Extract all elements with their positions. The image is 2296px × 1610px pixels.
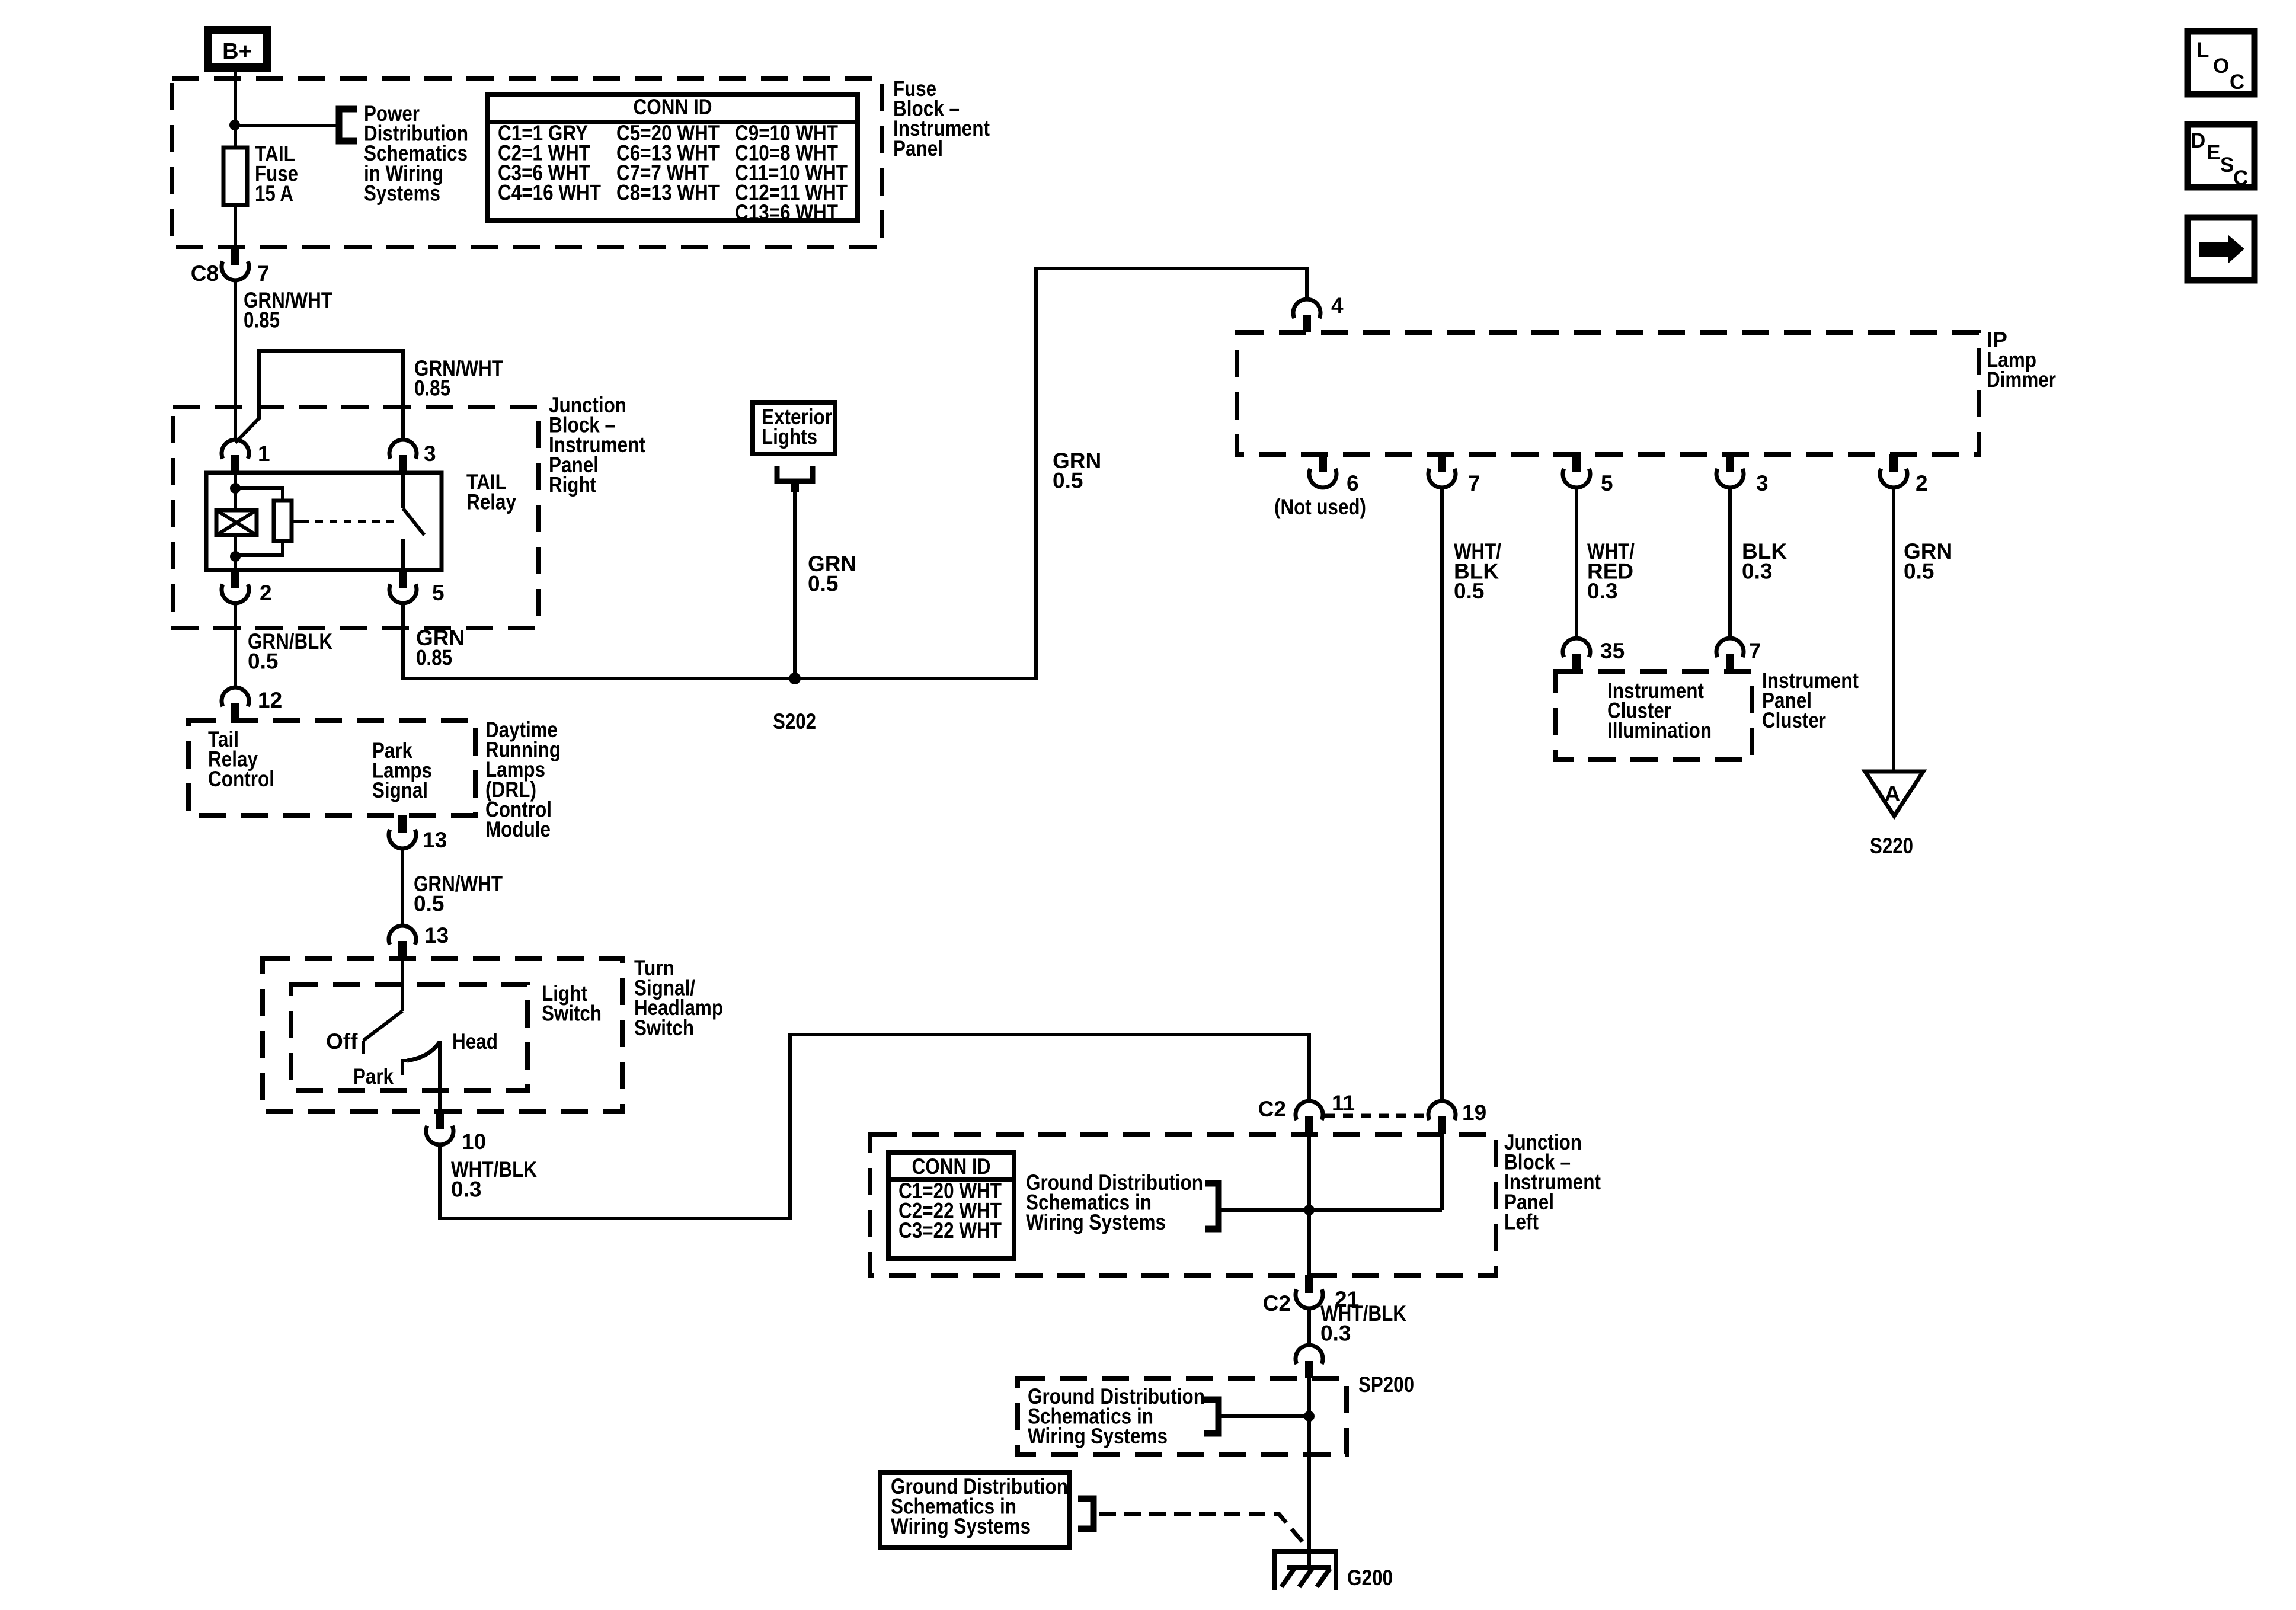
instrument cluster illumination (dashed box) bbox=[1556, 671, 1752, 760]
junction dot fuse feed bbox=[229, 120, 240, 130]
switch park-head arc bbox=[407, 1042, 440, 1061]
svg-text:D: D bbox=[2191, 129, 2205, 152]
SP200 splice pack (dashed box) bbox=[1018, 1378, 1347, 1454]
junction block - instrument panel left (dashed box) bbox=[870, 1134, 1496, 1275]
junction dot (junction block left) bbox=[1304, 1205, 1315, 1215]
light switch pin 13 connector bbox=[389, 926, 416, 959]
wire pin 11 through junction block bbox=[1307, 1134, 1311, 1275]
relay coil feed wire bbox=[234, 473, 237, 510]
svg-text:C13=6 WHT: C13=6 WHT bbox=[735, 200, 838, 225]
icon box DESC bbox=[2188, 124, 2255, 190]
dimmer pin 7 connector bbox=[1428, 454, 1456, 488]
dashed reference link to G200 bbox=[1099, 1514, 1307, 1548]
svg-text:C1=20 WHTC2=22 WHTC3=22 WHT: C1=20 WHTC2=22 WHTC3=22 WHT bbox=[898, 1179, 1002, 1243]
svg-text:7: 7 bbox=[1468, 471, 1480, 495]
wire branch loop to relay pin 3 bbox=[235, 351, 403, 443]
wire BLK 0.3 to cluster pin 7 bbox=[1728, 488, 1732, 638]
svg-text:10: 10 bbox=[462, 1129, 486, 1154]
svg-text:TAILFuse15 A: TAILFuse15 A bbox=[255, 142, 298, 206]
svg-text:5: 5 bbox=[432, 581, 445, 605]
wire bracket to splice bbox=[1219, 1414, 1309, 1418]
relay switch arm bbox=[403, 508, 424, 535]
icon box LOC bbox=[2188, 31, 2255, 94]
wire WHT/BLK 0.5 to junction block left pin 19 bbox=[1440, 488, 1444, 1101]
relay pin 2 connector bbox=[222, 570, 249, 603]
exterior lights box bbox=[753, 402, 835, 454]
relay pin 5 connector bbox=[389, 570, 417, 603]
svg-text:7: 7 bbox=[257, 261, 270, 286]
svg-text:L: L bbox=[2196, 39, 2209, 62]
switch head contact bbox=[438, 1041, 442, 1055]
wire B+ to fuse bbox=[234, 68, 237, 247]
CONN ID table (fuse block) bbox=[488, 94, 858, 220]
dimmer pin 2 connector bbox=[1880, 454, 1907, 488]
switch common wire bbox=[401, 959, 404, 1011]
svg-text:3: 3 bbox=[1756, 471, 1769, 495]
switch wiper arm bbox=[363, 1011, 402, 1041]
svg-text:13: 13 bbox=[424, 923, 449, 948]
svg-text:19: 19 bbox=[1462, 1100, 1486, 1125]
connector C2 pin 19 bbox=[1428, 1101, 1456, 1134]
junction block - instrument panel right (dashed box) bbox=[173, 407, 538, 628]
dimmer pin 5 connector bbox=[1563, 454, 1590, 488]
svg-text:35: 35 bbox=[1600, 639, 1625, 663]
svg-text:1: 1 bbox=[258, 441, 270, 466]
svg-text:Park: Park bbox=[353, 1064, 394, 1089]
relay pin 1 connector bbox=[222, 440, 249, 473]
table 2 divider bbox=[888, 1177, 1014, 1182]
dimmer pin 3 connector bbox=[1716, 454, 1744, 488]
connector into SP200 bbox=[1296, 1345, 1323, 1378]
wire pin 19 stub inside junction block bbox=[1440, 1134, 1444, 1210]
TAIL relay box bbox=[206, 473, 442, 570]
wire WHT/BLK 0.3 to junction block left pin 11 bbox=[440, 1035, 1309, 1218]
svg-text:6: 6 bbox=[1347, 471, 1359, 495]
bracket ground distribution (bottom box) bbox=[1078, 1499, 1093, 1529]
svg-text:B+: B+ bbox=[222, 39, 252, 64]
wire WHT/RED 0.3 to cluster pin 35 bbox=[1575, 488, 1578, 638]
splice S202 bbox=[789, 673, 801, 684]
relay resistor top wire bbox=[235, 488, 283, 501]
exterior lights connector bracket bbox=[777, 466, 813, 481]
daytime running lamps control module (dashed box) bbox=[188, 721, 475, 815]
svg-text:S: S bbox=[2220, 153, 2234, 177]
junction dot SP200 bbox=[1304, 1411, 1315, 1422]
svg-text:3: 3 bbox=[424, 441, 436, 466]
wire WHT/BLK to SP200 bbox=[1307, 1308, 1311, 1345]
splice S220 triangle bbox=[1865, 772, 1923, 816]
svg-text:5: 5 bbox=[1601, 471, 1613, 495]
svg-text:O: O bbox=[2213, 55, 2229, 78]
relay coil (box with X) bbox=[216, 510, 257, 535]
switch off contact bbox=[362, 1041, 365, 1054]
exterior lights connector stub bbox=[791, 484, 799, 492]
switch park contact bbox=[402, 1061, 407, 1075]
bracket power distribution reference bbox=[339, 109, 357, 141]
dashed link pin 11 to pin 19 bbox=[1325, 1114, 1427, 1118]
wire SP200 to G200 bbox=[1307, 1378, 1311, 1567]
connector C8 pin 7 (below fuse block) bbox=[222, 247, 249, 280]
svg-text:A: A bbox=[1885, 782, 1901, 806]
relay node pin2 bbox=[230, 551, 241, 562]
wire GRN 0.5 to S220 bbox=[1892, 488, 1895, 772]
svg-text:C: C bbox=[2230, 71, 2244, 94]
svg-text:C8: C8 bbox=[191, 261, 219, 286]
CONN ID table (junction block left) bbox=[888, 1153, 1014, 1259]
fuse TAIL 15 A bbox=[223, 148, 247, 205]
svg-text:C2: C2 bbox=[1258, 1097, 1286, 1121]
svg-text:CONN ID: CONN ID bbox=[912, 1154, 991, 1179]
svg-text:C2: C2 bbox=[1263, 1291, 1291, 1315]
svg-text:12: 12 bbox=[258, 688, 282, 712]
svg-text:Head: Head bbox=[452, 1029, 498, 1054]
relay resistor bottom wire bbox=[235, 541, 283, 555]
relay node pin1 bbox=[230, 483, 241, 494]
ground distribution reference box bbox=[880, 1473, 1070, 1548]
wire GRN/WHT to relay pin 1 bbox=[234, 280, 237, 440]
fuse block - instrument panel (dashed box) bbox=[172, 79, 882, 247]
wire to power distribution reference bbox=[235, 124, 337, 127]
svg-text:4: 4 bbox=[1331, 293, 1344, 318]
bracket ground distribution (SP200) bbox=[1204, 1400, 1219, 1433]
svg-text:C: C bbox=[2233, 167, 2248, 190]
wire bracket to pin 19 branch bbox=[1219, 1208, 1442, 1212]
dimmer pin 6 connector bbox=[1309, 454, 1336, 488]
svg-text:13: 13 bbox=[423, 828, 447, 852]
svg-text:C8=13 WHT: C8=13 WHT bbox=[616, 181, 720, 205]
relay resistor bbox=[274, 501, 292, 541]
svg-text:2: 2 bbox=[1916, 471, 1928, 495]
svg-text:7: 7 bbox=[1749, 639, 1761, 663]
switch head wire to pin 10 bbox=[438, 1055, 442, 1112]
DRL pin 13 connector bbox=[389, 815, 416, 849]
cluster pin 35 connector bbox=[1563, 638, 1590, 671]
svg-text:Off: Off bbox=[326, 1029, 358, 1054]
DRL module pin 12 connector bbox=[222, 687, 249, 721]
svg-text:E: E bbox=[2207, 141, 2220, 164]
svg-text:(Not used): (Not used) bbox=[1274, 495, 1366, 519]
cluster pin 7 connector bbox=[1716, 638, 1744, 671]
ground G200 symbol bbox=[1274, 1551, 1336, 1590]
wire GRN 0.85 to S202 bbox=[403, 603, 1036, 678]
wire GRN/BLK to DRL module bbox=[234, 603, 237, 687]
connector C2 pin 11 bbox=[1296, 1101, 1323, 1134]
light switch (inner dashed box) bbox=[291, 984, 527, 1090]
switch pin 10 connector bbox=[426, 1112, 453, 1145]
IP lamp dimmer (dashed box) bbox=[1237, 332, 1979, 454]
relay actuation dashed link bbox=[301, 520, 396, 523]
wire GRN 0.5 riser to IP lamp dimmer pin 4 bbox=[1036, 268, 1307, 680]
svg-text:CONN ID: CONN ID bbox=[634, 95, 712, 119]
relay switch contact wire bbox=[401, 539, 405, 570]
svg-text:C4=16 WHT: C4=16 WHT bbox=[498, 181, 601, 205]
icon box arrow bbox=[2188, 217, 2255, 280]
wire GRN/WHT 0.5 DRL to switch bbox=[401, 849, 404, 926]
dimmer pin 4 connector bbox=[1293, 299, 1320, 332]
resistor to dashed link tick bbox=[292, 520, 301, 523]
wire GRN 0.5 exterior lights bbox=[793, 491, 797, 678]
svg-text:SP200: SP200 bbox=[1358, 1372, 1414, 1397]
relay coil to pin 2 wire bbox=[234, 535, 237, 570]
power terminal B+ bbox=[208, 30, 267, 68]
turn signal / headlamp switch (dashed box) bbox=[263, 959, 622, 1112]
connector C2 pin 21 bbox=[1296, 1275, 1323, 1308]
svg-text:2: 2 bbox=[260, 581, 272, 605]
svg-text:S220: S220 bbox=[1870, 834, 1913, 858]
svg-text:G200: G200 bbox=[1347, 1566, 1393, 1590]
table divider bbox=[488, 120, 858, 124]
relay switch common wire bbox=[401, 473, 405, 508]
bracket ground distribution (junction block) bbox=[1205, 1183, 1219, 1229]
svg-text:S202: S202 bbox=[773, 709, 816, 734]
relay pin 3 connector bbox=[389, 440, 417, 473]
svg-text:11: 11 bbox=[1332, 1091, 1355, 1115]
